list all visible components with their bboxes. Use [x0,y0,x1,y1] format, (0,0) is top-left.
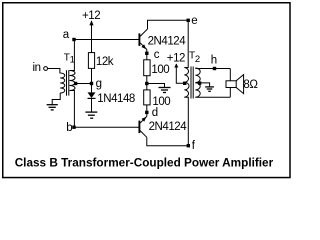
wire 12k bottom to node g [91,68,93,83]
svg-text:b: b [66,122,72,134]
svg-text:2: 2 [195,54,200,65]
T1 primary winding [60,73,65,93]
input terminal circle [44,67,48,71]
wire node a to Q1 base [74,39,139,41]
wire node f up to T2 primary bottom [184,97,188,146]
T2 core [190,67,192,99]
wire Q2 collector to node f [147,137,189,145]
svg-text:in: in [33,62,41,74]
node c [145,52,148,55]
wire diode to ground [91,98,93,111]
speaker vertical wire [229,69,231,98]
svg-text:1N4148: 1N4148 [97,93,135,105]
wire supply arrow down to 12k top (crosses node-a wire) [91,21,93,53]
T2 primary winding [184,68,189,98]
svg-text:2N4124: 2N4124 [148,36,187,48]
svg-text:c: c [154,49,160,61]
wire r2 bottom to node d [146,105,148,117]
svg-text:d: d [152,107,158,119]
wire Q1 collector to node e [148,20,189,29]
svg-text:a: a [63,29,70,41]
svg-text:h: h [211,54,217,66]
T2 secondary winding [195,68,200,97]
node a [72,38,75,41]
wire Q1 emitter to node c [146,50,148,60]
power arrow +12 right [174,64,178,68]
svg-text:+12: +12 [167,53,185,65]
diode 1N4148 [91,85,93,92]
wire T1 secondary bottom down to node b [70,91,75,128]
svg-text:Ω: Ω [249,79,258,91]
wire T1 secondary tap to node g [76,83,92,85]
border frame [3,3,290,178]
wire T1 primary bottom to ground [52,93,60,104]
svg-text:100: 100 [151,64,169,76]
wire node a down to T1 secondary top [70,40,75,71]
T1 secondary winding [70,71,76,91]
svg-text:1: 1 [70,54,75,65]
ground T1 primary [47,105,58,110]
wire T2 secondary tap to ground [195,83,209,87]
resistor 100 lower [144,90,150,105]
wire T2 secondary top to speaker [195,68,230,70]
resistor 12k [88,53,94,69]
wire T2 secondary bottom to speaker [195,96,230,98]
svg-text:12k: 12k [96,56,114,68]
T1 secondary tap dot [74,82,77,85]
svg-text:2N4124: 2N4124 [149,121,188,133]
wire node b to Q2 base [74,126,139,128]
svg-text:Class B Transformer-Coupled Po: Class B Transformer-Coupled Power Amplif… [15,155,274,169]
ground T2 secondary [205,87,214,91]
ground diode [85,112,97,118]
wire node e down to T2 primary top [184,20,188,67]
T1 core [66,70,68,95]
svg-text:g: g [96,78,102,90]
node d [145,111,148,114]
resistor 100 upper [144,60,150,76]
wire +12 arrow to T2 primary tap [176,64,184,83]
node b [72,126,75,129]
ground emitter junction [159,88,171,93]
node f [187,144,190,147]
svg-text:+12: +12 [82,10,100,22]
node g [90,82,93,85]
wire r1 bottom to junction [146,76,148,90]
power arrow +12 left [89,20,93,25]
speaker 8ohm [226,81,236,88]
wire in terminal to T1 primary [48,69,61,74]
T2 primary tap dot [183,82,186,85]
node h [213,67,216,70]
svg-text:e: e [191,15,197,27]
emitter junction node [145,82,148,85]
node e [187,19,190,22]
transistor Q1 2N4124 [138,33,140,46]
transistor Q2 2N4124 [138,121,140,134]
wire junction to mid ground [147,84,165,88]
T2 secondary tap dot [198,81,201,84]
